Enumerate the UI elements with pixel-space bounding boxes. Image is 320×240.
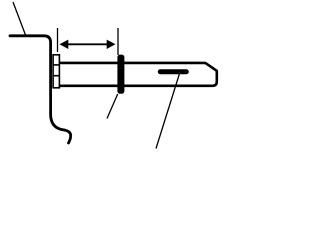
spacer divider 2 xyxy=(53,75,59,77)
bracket (panel with flange and break curve) xyxy=(10,36,71,143)
leader line to slot xyxy=(156,72,180,149)
spacer divider 1 xyxy=(53,64,59,66)
rod / shaft outline xyxy=(60,63,217,86)
leader line to collar xyxy=(107,94,118,119)
spacer stack (ribbed bushing on bracket) xyxy=(53,55,59,88)
arrowhead right xyxy=(107,40,116,49)
extension line right xyxy=(117,28,119,55)
slot marking on rod xyxy=(158,69,189,74)
leader line to bracket top xyxy=(13,2,26,35)
dimension line xyxy=(66,43,108,45)
extension line left xyxy=(57,28,59,52)
collar (filled stop ring on rod) xyxy=(117,55,124,94)
arrowhead left xyxy=(60,40,69,49)
